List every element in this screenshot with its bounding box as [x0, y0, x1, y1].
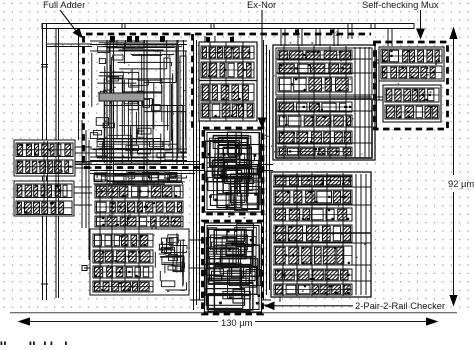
- full adder feedthrough wires: [107, 164, 147, 186]
- dashed outline full adder top: [86, 33, 371, 36]
- wire mid vertical bundle: [82, 120, 89, 260]
- dashed outline full adder bottom: [84, 166, 200, 169]
- dimension width 130um: [18, 317, 439, 328]
- chip top power rail: [42, 24, 414, 40]
- wire bottom-left risers: [150, 216, 190, 257]
- wire column x377: [377, 50, 380, 130]
- arrow full adder: [60, 10, 83, 39]
- full adder cell block: [90, 40, 187, 164]
- wire cross links left: [82, 240, 204, 271]
- left io block 1: [14, 140, 75, 176]
- carry block upper: [94, 172, 187, 184]
- arrow self-checking mux: [416, 10, 425, 40]
- wire column x195 bundle: [194, 34, 200, 310]
- svg-text:Ex-Nor: Ex-Nor: [247, 0, 276, 10]
- arrow 2-pair-2-rail checker: [264, 302, 353, 311]
- svg-text:Full Adder: Full Adder: [43, 0, 85, 10]
- carry blocks crossing wires: [100, 185, 139, 292]
- dashed box ex-nor: [203, 128, 263, 214]
- full adder top vias: [110, 36, 165, 42]
- wire mux links: [372, 60, 384, 100]
- sum block crossing wires: [276, 46, 372, 159]
- xor column top wires: [205, 36, 234, 42]
- svg-text:130 µm: 130 µm: [221, 317, 253, 328]
- carry block lower: [90, 229, 189, 295]
- svg-text:2-Pair-2-Rail Checker: 2-Pair-2-Rail Checker: [355, 300, 445, 311]
- dashed outline full adder right: [191, 34, 194, 128]
- right lower margin wires: [273, 174, 371, 295]
- wire top horizontal pair: [47, 44, 92, 47]
- checker cell: [205, 223, 262, 312]
- sum block (right upper): [273, 45, 375, 160]
- cropped caption stubs: [1, 342, 67, 346]
- mux cell 2: [383, 85, 441, 122]
- dashed outline full adder left: [82, 36, 85, 167]
- arrow ex-nor: [258, 10, 267, 129]
- ex-nor cell: [205, 130, 262, 212]
- svg-text:92 µm: 92 µm: [448, 178, 474, 189]
- xor column crossing wires: [199, 42, 257, 121]
- wire column x265 bundle: [264, 40, 270, 300]
- right lower block: [271, 172, 371, 297]
- left io crossing wires: [44, 141, 59, 215]
- sum block feed wires top: [281, 29, 338, 47]
- wire vertical left feeds: [56, 29, 79, 299]
- sum block right margin wires: [276, 47, 372, 158]
- xor column block: [199, 42, 257, 121]
- dashed box checker: [203, 221, 263, 314]
- full adder dark bar: [99, 93, 144, 101]
- right lower block bottom stub: [279, 297, 281, 302]
- wire horizontal bus y165: [47, 162, 273, 174]
- full adder poly strip: [164, 56, 186, 152]
- dashed box mux: [375, 42, 448, 129]
- wire left-block links: [73, 147, 92, 205]
- chip left edge: [41, 24, 48, 300]
- mux feed wires: [388, 29, 392, 47]
- svg-text:Self-checking Mux: Self-checking Mux: [362, 0, 439, 10]
- chip bottom edge: [10, 312, 457, 314]
- annotation speckles: [96, 42, 438, 309]
- right lower crossing wires: [273, 173, 371, 296]
- left io block 2: [14, 181, 74, 216]
- dimension height 92um: [448, 27, 474, 307]
- wire bottom links: [190, 300, 271, 305]
- mux cell 1: [379, 47, 444, 81]
